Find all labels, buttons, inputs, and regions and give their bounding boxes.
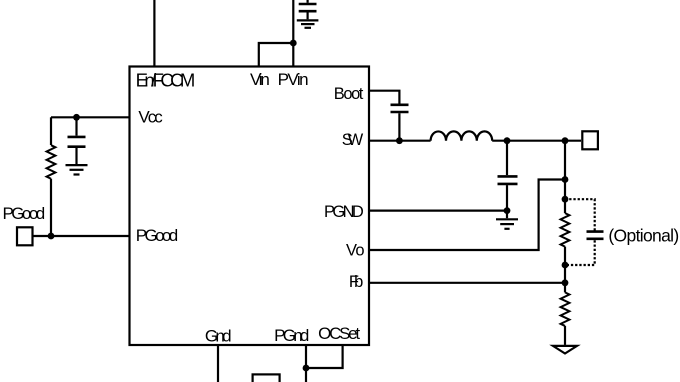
wire Rfb1 to Fb node <box>564 247 566 293</box>
capacitor Cout <box>498 141 518 219</box>
node optional top junction <box>562 196 569 203</box>
wire Rfb2 to ground <box>564 326 566 345</box>
wire PGnd bottom <box>305 345 307 382</box>
capacitor Cboot <box>391 105 409 141</box>
dashed optional box <box>565 199 595 265</box>
svg-text:Boot: Boot <box>334 85 364 103</box>
svg-text:PGood: PGood <box>136 226 178 245</box>
terminal Vout pad <box>582 131 598 149</box>
wire Vo <box>369 180 565 251</box>
wire Vcc corner down <box>50 117 52 145</box>
svg-text:En/FCCM: En/FCCM <box>136 70 196 91</box>
wire Gnd bottom <box>217 345 219 382</box>
svg-text:Vin: Vin <box>250 70 270 89</box>
node PGnd/OCSet junction <box>303 365 310 372</box>
ground (Cvcc) <box>66 165 88 174</box>
svg-text:PGnd: PGnd <box>274 326 309 345</box>
wire OCSet <box>306 345 343 368</box>
wire Vin jog <box>259 43 294 67</box>
terminal pad bottom <box>253 374 280 382</box>
capacitor Cin (top right) <box>299 0 317 19</box>
resistor Rfb2 <box>561 292 570 326</box>
node PGND junction <box>504 207 511 214</box>
capacitor Copt (optional) <box>587 232 604 239</box>
wire PGND <box>369 210 507 212</box>
svg-text:PVin: PVin <box>278 70 309 89</box>
svg-text:PGood: PGood <box>3 204 46 223</box>
resistor Rfb1 <box>561 213 570 247</box>
node Vcc junction <box>73 114 80 121</box>
node PGood junction <box>48 233 55 240</box>
inductor L1 <box>431 131 493 140</box>
wire L1 to output <box>492 140 581 142</box>
node optional bottom junction <box>562 262 569 269</box>
wire PVin top <box>292 0 294 67</box>
svg-text:(Optional): (Optional) <box>608 226 679 246</box>
svg-text:Gnd: Gnd <box>205 326 232 345</box>
capacitor Cvcc <box>68 117 86 164</box>
ground (signal gnd triangle) <box>553 346 577 354</box>
svg-text:SW: SW <box>342 131 364 149</box>
wire divider from SW node <box>564 141 566 213</box>
wire Boot <box>369 91 399 104</box>
wire Vcc <box>51 116 130 118</box>
ground (top right) <box>297 20 319 27</box>
node Vo junction <box>562 176 569 183</box>
IC U1 body <box>130 67 370 346</box>
svg-text:Vcc: Vcc <box>138 108 163 127</box>
node Vout junction <box>562 137 569 144</box>
resistor Rvcc <box>47 145 56 179</box>
svg-text:PGND: PGND <box>324 203 364 221</box>
node Fb junction <box>562 279 569 286</box>
svg-text:Vo: Vo <box>346 241 365 259</box>
node Vin/PVin junction <box>290 40 297 47</box>
wire SW <box>369 140 431 142</box>
terminal PGood pad <box>17 227 33 245</box>
node Boot/SW junction <box>396 137 403 144</box>
ground (Cout) <box>496 219 518 229</box>
wire En/FCCM top <box>153 0 155 67</box>
svg-text:Fb: Fb <box>349 273 363 291</box>
wire resistor to PGood node <box>50 179 52 236</box>
svg-text:OCSet: OCSet <box>318 324 360 343</box>
wire Fb <box>369 282 565 284</box>
node Cout junction <box>504 137 511 144</box>
wire PGood <box>33 235 130 237</box>
